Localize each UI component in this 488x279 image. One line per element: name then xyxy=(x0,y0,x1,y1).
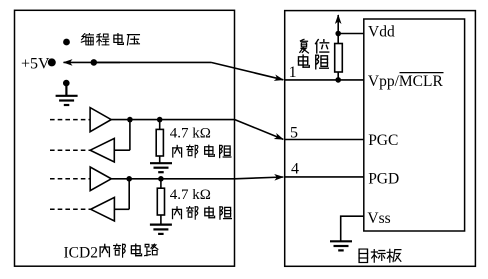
wire diagonal to Vpp pin 1 with arrowhead xyxy=(211,62,283,79)
resistor R1 4.7k xyxy=(159,120,161,130)
wire Vss pin line xyxy=(341,216,364,241)
wire feedback vertical xyxy=(129,120,131,151)
wire PGC diagonal to pin 5 with arrowhead xyxy=(235,120,283,140)
wire PGD pin line xyxy=(285,176,364,178)
wire +5V horizontal run xyxy=(94,61,211,63)
node +5V terminal dot xyxy=(48,58,56,66)
wire dashed input 1 xyxy=(50,119,90,121)
wire PGD net xyxy=(111,178,235,180)
buffer U2 (left-pointing) xyxy=(90,138,114,162)
label 内部电阻 #2 xyxy=(173,206,232,219)
wire feedback vertical 2 xyxy=(128,179,130,210)
wire feedback horizontal 2 xyxy=(115,208,130,210)
svg-text:Vpp/MCLR: Vpp/MCLR xyxy=(368,73,444,90)
left box ICD2 xyxy=(15,10,235,266)
node junction dot xyxy=(127,117,133,123)
svg-text:Vdd: Vdd xyxy=(368,24,395,41)
buffer U3 (right-pointing) xyxy=(90,167,111,191)
svg-text:4.7 kΩ: 4.7 kΩ xyxy=(170,187,211,203)
svg-text:ICD2: ICD2 xyxy=(64,245,98,262)
svg-text:PGD: PGD xyxy=(368,170,399,187)
node dot Vdd xyxy=(335,31,341,37)
wire dashed input 2 xyxy=(50,149,90,151)
wire PGC pin line xyxy=(285,139,364,141)
wire Vpp pin line xyxy=(285,79,364,81)
node dot on Vpp line xyxy=(335,77,341,83)
wire dashed input 4 xyxy=(50,208,91,210)
svg-text:1: 1 xyxy=(289,64,297,81)
node junction dot xyxy=(126,176,132,182)
svg-text:4.7 kΩ: 4.7 kΩ xyxy=(170,126,211,142)
wire rail to resistor xyxy=(337,34,339,44)
wire +5V with left arrowhead xyxy=(64,61,121,63)
ground G2 xyxy=(150,225,172,234)
svg-text:PGC: PGC xyxy=(368,132,398,149)
ground G1 xyxy=(150,163,172,172)
svg-text:4: 4 xyxy=(291,160,299,177)
wire PGD to pin 4 with arrowhead xyxy=(235,177,283,179)
svg-text:+5V: +5V xyxy=(21,55,50,72)
wire feedback horizontal xyxy=(115,149,130,151)
wire Vdd rail with up arrowhead xyxy=(337,15,339,34)
wire PGC net xyxy=(111,119,235,121)
wire Vdd pin xyxy=(338,33,364,35)
resistor reset (复位电阻) xyxy=(335,44,343,73)
inner box MCU xyxy=(364,19,465,231)
label 目标板 xyxy=(359,249,401,263)
ground A xyxy=(56,85,78,105)
svg-text:Vss: Vss xyxy=(367,210,390,227)
buffer U1 (right-pointing) xyxy=(90,108,111,132)
node: programming voltage bullet xyxy=(63,39,70,46)
buffer U4 (left-pointing) xyxy=(91,197,115,221)
resistor R2 4.7k xyxy=(160,179,162,188)
node dot on +5V wire xyxy=(91,59,98,66)
node junction dot at R2 xyxy=(158,176,164,182)
label 编程电压 xyxy=(81,33,139,45)
label 内部电阻 #1 xyxy=(173,145,231,158)
label 复位 / 电阻 xyxy=(298,39,329,69)
node ground-A dot xyxy=(63,80,70,87)
svg-text:5: 5 xyxy=(290,124,298,141)
right box target board xyxy=(285,11,476,267)
node junction dot at R1 xyxy=(157,117,163,123)
ground G3 xyxy=(330,241,352,250)
wire dashed input 3 xyxy=(50,178,90,180)
